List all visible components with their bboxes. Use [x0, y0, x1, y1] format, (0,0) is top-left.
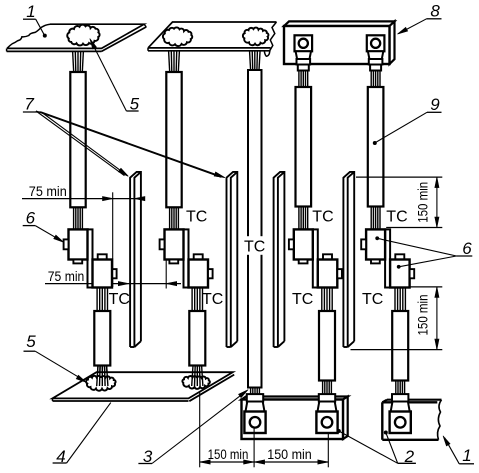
- strip specimen 7 (fourth): [343, 172, 354, 347]
- hanger 4 threaded section: [298, 207, 300, 230]
- dimension 75 min (upper): [22, 183, 145, 287]
- svg-text:75 min: 75 min: [48, 268, 85, 284]
- middle specimen bottom wires: [250, 388, 252, 395]
- svg-text:150 min: 150 min: [267, 446, 312, 462]
- svg-text:5: 5: [26, 332, 36, 351]
- hanger 1 lower threaded section: [96, 288, 98, 312]
- strip specimen 7 (third): [274, 172, 285, 347]
- svg-text:8: 8: [430, 2, 440, 21]
- hanger 4 upper sleeve: [296, 87, 312, 207]
- torn break edge of plate 1: [7, 24, 50, 48]
- callout 3 (middle specimen clamping): [138, 390, 248, 466]
- callout 5 (weld on plate 4): [24, 332, 87, 382]
- svg-text:6: 6: [26, 209, 36, 228]
- hanger 5 bottom wires: [395, 381, 397, 395]
- middle long specimen rod TC: [248, 70, 262, 388]
- hanger 2 lower sleeve: [189, 311, 205, 366]
- clamp body assembly hanger 1: [64, 229, 117, 287]
- hanger rod 1 upper wires: [73, 51, 84, 72]
- dimension 150 min (lower right): [351, 287, 443, 350]
- hanger 1 bottom wires: [97, 366, 98, 387]
- hanger rod 2 upper wires: [169, 51, 180, 72]
- hanger 4 top clevis: [295, 35, 313, 70]
- clamp body assembly hanger 5: [361, 229, 414, 287]
- svg-text:75 min: 75 min: [29, 183, 67, 199]
- hanger 4 lower sleeve: [319, 311, 335, 381]
- top anchor plate 1 (torn left): [7, 24, 147, 51]
- clamp body assembly hanger 4: [289, 229, 342, 287]
- white halo for middle TC label: [242, 236, 267, 255]
- hanger 4 lower threaded section: [321, 288, 323, 312]
- callout 1 (top plate, torn): [23, 2, 47, 38]
- callout 6 (left clamp): [23, 209, 64, 243]
- hanger 1 bottom wires into weld: [97, 366, 98, 387]
- strip specimen 7 (second): [227, 172, 238, 347]
- svg-text:150 min: 150 min: [414, 295, 430, 336]
- hanger 5 lower sleeve: [392, 311, 408, 381]
- bottom anchor plate 4: [53, 372, 235, 401]
- hanger 5 top threaded section: [370, 71, 372, 88]
- svg-text:TC: TC: [386, 208, 407, 225]
- weld blob 5 on plate 4 left: [86, 376, 116, 391]
- weld blob on plate 2 right: [243, 28, 269, 46]
- hanger 2 bottom wires into weld: [192, 366, 193, 387]
- svg-text:TC: TC: [362, 291, 383, 308]
- hanger 4 bottom clevis: [316, 394, 337, 433]
- hanger 1 lower sleeve: [94, 311, 110, 366]
- dimension 75 min (lower): [45, 260, 181, 289]
- dimension 150 min (upper right): [356, 177, 442, 227]
- hanger 2 upper sleeve: [166, 72, 181, 207]
- callout 6 (right clamps): [375, 236, 472, 268]
- hanger 1 threaded section: [73, 207, 75, 229]
- middle specimen top wires: [250, 50, 251, 70]
- hanger 2 threaded section: [169, 207, 171, 229]
- weld blob 5 on plate 1: [67, 25, 99, 46]
- callout 2 (anchor blocks): [337, 429, 416, 466]
- callout 8 (top beam): [397, 2, 441, 35]
- hanger 5 upper sleeve (item 9): [368, 87, 384, 207]
- callout 1 (bottom support, torn): [443, 436, 474, 465]
- hanger 5 bottom clevis: [390, 394, 411, 433]
- svg-text:1: 1: [462, 446, 471, 465]
- svg-text:TC: TC: [292, 291, 313, 308]
- callout 9 (hanger rod sleeve): [373, 95, 442, 145]
- top anchor plate 2 (torn right): [148, 22, 277, 56]
- bottom support block 1 (torn): [382, 400, 441, 440]
- middle specimen bottom clevis: [244, 394, 265, 433]
- svg-text:7: 7: [24, 94, 34, 113]
- torn break edge of block 1: [438, 400, 442, 440]
- weld blob on plate 2 left: [163, 27, 192, 46]
- bottom anchor beam 2: [242, 397, 348, 440]
- callout 7 (strip specimens): [23, 94, 225, 177]
- hanger 4 top threaded section: [298, 71, 300, 88]
- callout 5 (weld on plate 1): [90, 39, 140, 114]
- strip specimen 7 (first): [130, 172, 141, 347]
- weld blob on plate 4 right: [182, 376, 209, 389]
- hanger 4 bottom wires: [322, 381, 324, 395]
- svg-text:TC: TC: [312, 208, 333, 225]
- hanger 5 threaded section: [370, 207, 372, 230]
- svg-text:9: 9: [430, 95, 440, 114]
- support beam 8: [284, 21, 395, 64]
- dimension 150 min + 150 min (bottom): [200, 392, 329, 468]
- svg-text:6: 6: [462, 239, 472, 258]
- hanger 2 lower threaded section: [191, 288, 193, 312]
- svg-text:TC: TC: [202, 291, 223, 308]
- svg-text:1: 1: [26, 2, 35, 21]
- torn break edge of plate 2: [264, 22, 276, 56]
- hanger 5 top clevis: [367, 35, 385, 70]
- leader lines callout 7: [36, 111, 225, 178]
- clamp body assembly hanger 2: [160, 229, 213, 287]
- svg-text:TC: TC: [109, 291, 130, 308]
- svg-text:150 min: 150 min: [414, 182, 430, 223]
- svg-text:TC: TC: [244, 239, 265, 256]
- hanger 5 lower threaded section: [394, 288, 396, 312]
- svg-text:TC: TC: [186, 208, 207, 225]
- callout 4 (bottom plate): [53, 403, 111, 466]
- svg-text:150 min: 150 min: [208, 446, 249, 462]
- hanger 1 upper sleeve: [70, 72, 85, 207]
